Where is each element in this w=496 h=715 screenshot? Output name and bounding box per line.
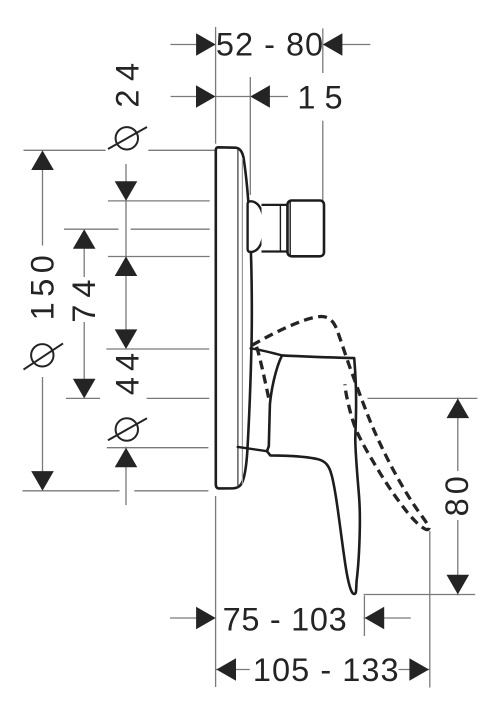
- svg-text:105 - 133: 105 - 133: [253, 652, 400, 688]
- arrow dim 105-133 right: [409, 658, 429, 681]
- arrow dim 75-103 right: [365, 607, 385, 630]
- wire: extension line dashed lever tip: [429, 531, 431, 688]
- escutcheon plate (side view): [216, 147, 252, 488]
- wire: extension line at knob right face: [322, 28, 324, 73]
- dashed lever raised position outline: [252, 316, 429, 529]
- diameter symbol of Ø150: [24, 343, 64, 369]
- stop knob small cylinder: [262, 205, 288, 252]
- lever hub bottom line: [238, 447, 267, 451]
- wire: dim line Ø24/Ø44 column x=126: [125, 164, 127, 201]
- wire: dim 52-80 leaders y=44.5: [170, 44, 197, 46]
- knob face line: [289, 202, 291, 256]
- knob groove line: [279, 205, 281, 251]
- wire: dim line Ø150 column x=42.5: [42, 169, 44, 246]
- svg-text:1 5: 1 5: [297, 79, 342, 115]
- svg-text:52 - 80: 52 - 80: [216, 27, 324, 63]
- diameter symbol of Ø44: [108, 418, 147, 440]
- arrow dim 150 top: [31, 150, 54, 170]
- svg-text:74: 74: [66, 273, 102, 323]
- wire: dim 75-103 leaders y=618: [170, 617, 197, 619]
- wire: dim line 74 column x=84.2: [83, 248, 85, 277]
- wire: knob centerline y=229.2: [64, 228, 119, 230]
- lever shoulder line: [251, 348, 282, 355]
- arrow dim 52-80 right: [323, 33, 343, 56]
- wire: lever axis extension y=398.4: [66, 397, 100, 399]
- dashed lever left edge: [257, 347, 270, 401]
- svg-text:44: 44: [110, 347, 146, 395]
- wire: lever hub top extension y=349: [106, 348, 209, 350]
- wire: dim 15 leaders y=96.5: [171, 96, 197, 98]
- arrow dim 44 top: [115, 329, 138, 349]
- plate highlight line: [241, 158, 243, 485]
- wire: plate bottom extension y=490.8: [23, 490, 120, 492]
- arrow dim 80 top: [447, 399, 470, 419]
- wire: dim line 80 column x=457.8: [457, 398, 459, 472]
- svg-text:24: 24: [110, 54, 146, 107]
- arrow dim 15 right: [250, 85, 270, 108]
- stop knob neck gasket: [248, 201, 264, 252]
- arrow dim 75-103 left: [196, 607, 216, 630]
- arrow dim 150 bottom: [31, 471, 54, 491]
- diameter symbol of Ø24: [108, 127, 147, 150]
- arrow dim 80 bottom: [447, 575, 470, 595]
- svg-text:80: 80: [439, 472, 475, 516]
- wire: plate top extension y=150.3: [24, 149, 106, 151]
- lever handle body: [267, 355, 360, 594]
- wire: dim 80 bottom reference y=594.5: [364, 594, 476, 596]
- arrow dim 74 top: [73, 229, 96, 249]
- arrow dim 24 bottom: [115, 256, 138, 276]
- wire: extension line solid lever tip: [363, 596, 365, 637]
- plate front edge line: [237, 149, 239, 487]
- wire: extension line plate front: [249, 77, 251, 195]
- wire: knob bottom extension y=256.5: [108, 256, 210, 258]
- wire: dim 105-133 tails y=669.5: [215, 669, 249, 671]
- stop knob large cylinder: [288, 201, 325, 257]
- wire: dim 80 top reference y=398.4: [368, 397, 478, 399]
- arrow dim 44 bottom: [115, 448, 138, 468]
- arrow dim 105-133 left: [216, 658, 236, 681]
- svg-text:75 - 103: 75 - 103: [223, 602, 348, 638]
- arrow dim 52-80 left: [196, 33, 216, 56]
- svg-text:150: 150: [25, 250, 61, 321]
- wire: lever hub bottom extension y=447.7: [107, 447, 209, 449]
- wire: knob top extension y=200.9: [108, 200, 210, 202]
- arrow dim 24 top: [115, 181, 138, 201]
- arrow dim 15 left: [196, 85, 216, 108]
- arrow dim 74 bottom: [73, 379, 96, 399]
